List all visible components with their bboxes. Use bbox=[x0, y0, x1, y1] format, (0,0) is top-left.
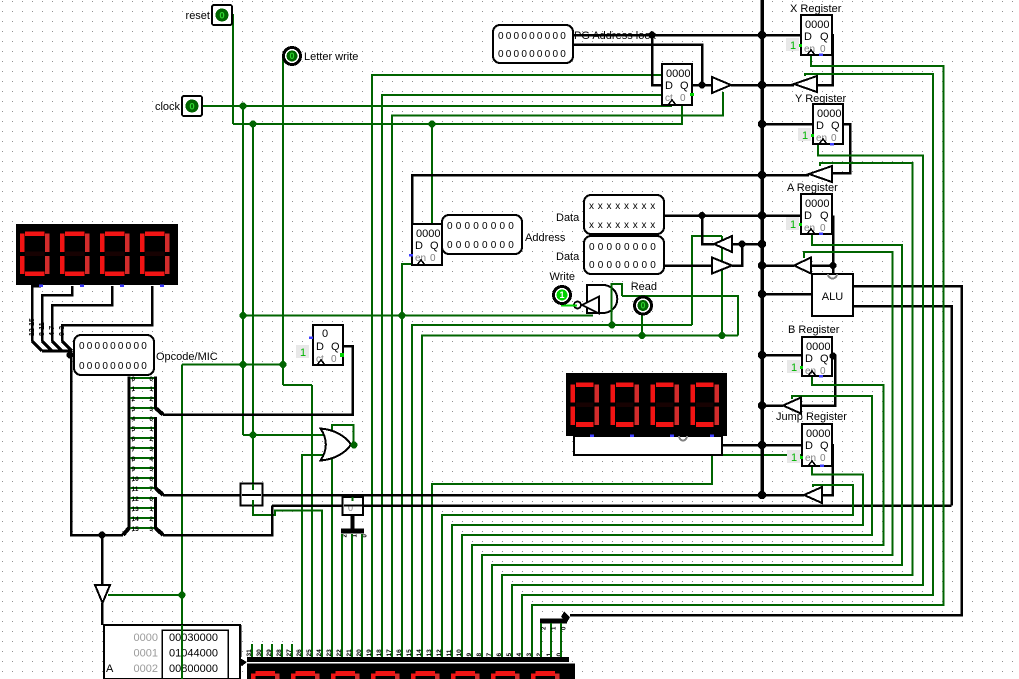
svg-text:0: 0 bbox=[537, 49, 543, 60]
svg-text:x: x bbox=[607, 220, 612, 231]
wire X clk bbox=[532, 54, 944, 658]
wire clock net y=106 bbox=[202, 105, 672, 107]
svg-text:0: 0 bbox=[430, 253, 436, 264]
wire Jump-out buffer ctl bbox=[442, 485, 853, 658]
wire A buffer in bbox=[811, 264, 833, 267]
svg-text:4: 4 bbox=[516, 653, 523, 657]
node bbox=[639, 332, 646, 339]
svg-text:0000: 0000 bbox=[806, 341, 830, 353]
svg-text:2: 2 bbox=[149, 436, 153, 443]
svg-text:0: 0 bbox=[500, 221, 506, 232]
gate box U1 on bus1 bbox=[241, 484, 263, 507]
svg-text:0: 0 bbox=[529, 49, 535, 60]
svg-text:0: 0 bbox=[650, 242, 656, 253]
wire Write stub (value 1) bbox=[562, 303, 577, 306]
svg-text:D: D bbox=[804, 31, 812, 43]
svg-text:0: 0 bbox=[615, 242, 621, 253]
wire bus to B-D bbox=[763, 354, 802, 357]
wire X Q elbow bbox=[817, 34, 833, 85]
wire display1 digit4 bbox=[62, 286, 152, 341]
svg-text:0: 0 bbox=[642, 260, 648, 271]
svg-text:0: 0 bbox=[110, 361, 116, 372]
node bbox=[67, 352, 74, 359]
wire PG Q to buffer bbox=[692, 84, 712, 87]
svg-text:7: 7 bbox=[132, 446, 136, 453]
svg-text:4: 4 bbox=[132, 416, 136, 423]
splitter 32-bit stub pins 31-27 bbox=[251, 644, 253, 657]
splitter opcode right groups bbox=[154, 377, 157, 410]
wire A Q down to ALU bbox=[832, 216, 835, 275]
svg-text:D: D bbox=[804, 210, 812, 222]
svg-text:21: 21 bbox=[346, 649, 353, 657]
svg-text:15: 15 bbox=[406, 649, 413, 657]
svg-text:Data: Data bbox=[556, 212, 580, 224]
svg-text:x: x bbox=[598, 220, 603, 231]
svg-text:17: 17 bbox=[386, 649, 393, 657]
svg-text:0: 0 bbox=[537, 31, 543, 42]
svg-text:28: 28 bbox=[276, 649, 283, 657]
svg-text:reset: reset bbox=[186, 10, 210, 22]
svg-text:0002: 0002 bbox=[134, 663, 158, 675]
svg-text:1: 1 bbox=[300, 347, 306, 359]
display hex 4-digit middle bbox=[566, 373, 727, 436]
svg-text:0: 0 bbox=[506, 49, 512, 60]
svg-text:0: 0 bbox=[219, 11, 224, 22]
svg-text:0: 0 bbox=[508, 221, 514, 232]
svg-text:0: 0 bbox=[831, 133, 837, 144]
wire bus to Y-D bbox=[762, 123, 813, 126]
node bbox=[240, 103, 247, 110]
wire ROM out right edge bbox=[239, 625, 242, 657]
enable 1 bbox=[786, 38, 799, 52]
register Address bbox=[412, 224, 442, 265]
svg-text:1: 1 bbox=[791, 362, 797, 374]
svg-text:ALU: ALU bbox=[822, 291, 843, 303]
svg-text:x: x bbox=[607, 201, 612, 212]
svg-text:0: 0 bbox=[102, 361, 108, 372]
svg-text:13: 13 bbox=[426, 649, 433, 657]
svg-text:0: 0 bbox=[521, 49, 527, 60]
svg-text:Data: Data bbox=[556, 251, 580, 263]
wire opcode probe bus left bbox=[70, 355, 123, 535]
svg-text:Letter write: Letter write bbox=[304, 51, 358, 63]
svg-text:1: 1 bbox=[149, 426, 153, 433]
register B bbox=[802, 337, 832, 377]
svg-text:10: 10 bbox=[456, 649, 463, 657]
node bus bbox=[758, 211, 766, 219]
register Jump bbox=[802, 424, 832, 466]
enable 1 bbox=[787, 450, 800, 464]
svg-text:A: A bbox=[106, 663, 114, 675]
wire A clk bbox=[492, 234, 902, 658]
svg-text:9: 9 bbox=[466, 653, 473, 657]
wire x=182 vertical bbox=[181, 365, 183, 679]
wire read buffer in to bus bbox=[732, 243, 763, 246]
svg-text:0: 0 bbox=[624, 242, 630, 253]
svg-text:0: 0 bbox=[102, 341, 108, 352]
wire pin19 net y=75 bbox=[372, 75, 662, 658]
node bus bbox=[758, 240, 766, 248]
wire x=182 through ROM bbox=[181, 625, 183, 679]
probe Data high bbox=[584, 195, 664, 234]
svg-text:0001: 0001 bbox=[134, 648, 158, 660]
svg-text:0: 0 bbox=[149, 376, 153, 383]
svg-text:x: x bbox=[642, 220, 647, 231]
wire buffer ctl x=722 bbox=[721, 236, 723, 336]
wire bus to A buffer bbox=[763, 264, 794, 267]
svg-text:6: 6 bbox=[149, 476, 153, 483]
wire x=102 to ROM buffer bbox=[101, 535, 104, 585]
svg-text:20: 20 bbox=[356, 649, 363, 657]
svg-text:0: 0 bbox=[820, 223, 826, 234]
splitter 3-bit mini at bus end bbox=[561, 612, 570, 623]
register PG bbox=[662, 64, 692, 105]
svg-text:0: 0 bbox=[447, 240, 453, 251]
svg-text:0: 0 bbox=[465, 240, 471, 251]
svg-text:x: x bbox=[598, 201, 603, 212]
svg-text:D: D bbox=[816, 120, 824, 132]
wire display1 digit2 bbox=[42, 286, 72, 341]
svg-text:ct: ct bbox=[665, 93, 673, 104]
svg-text:Jump Register: Jump Register bbox=[776, 411, 847, 423]
svg-text:0: 0 bbox=[126, 341, 132, 352]
wire y=325 net pin15 bbox=[412, 325, 692, 658]
node bbox=[399, 312, 406, 319]
svg-text:0: 0 bbox=[607, 260, 613, 271]
wire bus1 y=495 bbox=[163, 494, 804, 497]
svg-text:8: 8 bbox=[476, 653, 483, 657]
svg-text:00030000: 00030000 bbox=[169, 632, 218, 644]
wire y=315 net bbox=[243, 315, 593, 317]
svg-text:7: 7 bbox=[149, 486, 153, 493]
svg-text:26: 26 bbox=[296, 649, 303, 657]
svg-text:0: 0 bbox=[491, 240, 497, 251]
ROM contents box bbox=[104, 625, 240, 679]
svg-text:Write: Write bbox=[550, 271, 575, 283]
svg-text:B Register: B Register bbox=[788, 324, 840, 336]
node bus bbox=[758, 120, 766, 128]
svg-text:0: 0 bbox=[289, 51, 294, 61]
svg-text:15: 15 bbox=[132, 526, 140, 533]
svg-text:0: 0 bbox=[482, 221, 488, 232]
svg-text:1: 1 bbox=[790, 40, 796, 52]
splitter U2 3-bit bbox=[351, 515, 355, 529]
wire B-out buffer ctl bbox=[462, 396, 872, 658]
svg-text:x: x bbox=[633, 201, 638, 212]
wire PG Q feedback y=44 bbox=[572, 45, 702, 86]
svg-text:1: 1 bbox=[791, 452, 797, 464]
wire pin18 net y=95 bbox=[382, 95, 662, 658]
node bbox=[699, 82, 706, 89]
svg-text:01044000: 01044000 bbox=[169, 648, 218, 660]
svg-text:Q: Q bbox=[331, 341, 340, 353]
svg-text:0: 0 bbox=[598, 242, 604, 253]
node bus bbox=[758, 491, 766, 499]
svg-text:23: 23 bbox=[326, 649, 333, 657]
wire main bus vertical x=762 bbox=[760, 0, 764, 495]
node bbox=[609, 322, 616, 329]
svg-text:0: 0 bbox=[331, 354, 337, 365]
wire Jump Q elbow bbox=[822, 444, 833, 495]
svg-text:Q: Q bbox=[831, 120, 840, 132]
svg-text:10: 10 bbox=[132, 476, 140, 483]
node bbox=[280, 361, 287, 368]
display hex 4-digit top-left bbox=[16, 224, 178, 285]
svg-text:1: 1 bbox=[149, 386, 153, 393]
wire y=364 enable net bbox=[182, 364, 283, 366]
svg-text:0: 0 bbox=[465, 221, 471, 232]
svg-text:6: 6 bbox=[132, 436, 136, 443]
svg-text:12-15: 12-15 bbox=[29, 318, 36, 336]
wire B clk bbox=[472, 376, 884, 658]
svg-text:0: 0 bbox=[456, 240, 462, 251]
buffer bus-to-Y bbox=[809, 166, 832, 182]
svg-text:22: 22 bbox=[336, 649, 343, 657]
svg-text:x: x bbox=[650, 220, 655, 231]
wire AND out to read net bbox=[622, 296, 738, 336]
wire Read pin drop bbox=[641, 315, 643, 336]
svg-text:0: 0 bbox=[521, 31, 527, 42]
enable 1 bbox=[296, 345, 309, 359]
svg-text:x: x bbox=[615, 220, 620, 231]
splitter opcode 16-bit left bbox=[123, 528, 129, 535]
wire opcode low bus y=414 bbox=[163, 346, 353, 415]
svg-text:Q: Q bbox=[430, 240, 439, 252]
wire address net y=175 bbox=[412, 175, 809, 224]
wire Jump clk bbox=[452, 466, 863, 658]
svg-text:3: 3 bbox=[132, 406, 136, 413]
wire Y clk bbox=[512, 144, 923, 658]
wire bus to jump-D buffer bbox=[763, 404, 783, 407]
svg-text:5: 5 bbox=[149, 466, 153, 473]
svg-text:0000: 0000 bbox=[805, 19, 829, 31]
node bbox=[830, 262, 837, 269]
svg-text:0: 0 bbox=[552, 31, 558, 42]
svg-text:0: 0 bbox=[589, 242, 595, 253]
svg-text:12: 12 bbox=[132, 496, 140, 503]
svg-text:0: 0 bbox=[820, 453, 826, 464]
svg-text:X Register: X Register bbox=[790, 3, 842, 15]
wire read buffer out bbox=[702, 216, 714, 245]
svg-text:19: 19 bbox=[366, 649, 373, 657]
wire reset net vertical bbox=[232, 15, 233, 124]
node bbox=[739, 241, 746, 248]
wire OR input y=435 bbox=[243, 434, 327, 436]
node bbox=[429, 121, 436, 128]
pin Read bbox=[635, 297, 652, 314]
svg-text:0: 0 bbox=[141, 341, 147, 352]
display driver box bbox=[574, 436, 722, 455]
svg-text:Q: Q bbox=[680, 80, 689, 92]
node bus bbox=[758, 261, 766, 269]
svg-text:8-11: 8-11 bbox=[39, 322, 46, 336]
svg-text:18: 18 bbox=[376, 649, 383, 657]
svg-text:4: 4 bbox=[149, 456, 153, 463]
svg-text:0: 0 bbox=[633, 242, 639, 253]
wire ROM buffer ctl y=595 bbox=[108, 594, 182, 596]
register Y bbox=[813, 104, 843, 144]
svg-text:en: en bbox=[805, 366, 816, 377]
svg-text:0: 0 bbox=[545, 49, 551, 60]
register small 1-bit bbox=[313, 325, 343, 365]
node bbox=[699, 212, 706, 219]
buffer Jump-to-bus bbox=[804, 487, 822, 503]
svg-text:Address: Address bbox=[525, 232, 566, 244]
svg-text:0: 0 bbox=[189, 102, 194, 113]
svg-text:0: 0 bbox=[482, 240, 488, 251]
svg-text:x: x bbox=[642, 201, 647, 212]
wire ALU out1 to bottom bus bbox=[570, 286, 962, 615]
register A bbox=[801, 194, 832, 234]
ALU U3 bbox=[812, 274, 853, 316]
svg-text:00800000: 00800000 bbox=[169, 663, 218, 675]
wire PG D riser x=652 bbox=[652, 35, 662, 85]
buffer bus-to-JumpD bbox=[783, 398, 801, 414]
register X bbox=[801, 15, 832, 55]
svg-text:D: D bbox=[805, 353, 813, 365]
node bus bbox=[758, 171, 766, 179]
pin Letter write bbox=[284, 48, 301, 65]
svg-text:0: 0 bbox=[529, 31, 535, 42]
svg-text:x: x bbox=[624, 201, 629, 212]
svg-text:A Register: A Register bbox=[787, 182, 838, 194]
node bus bbox=[758, 31, 766, 39]
svg-text:0: 0 bbox=[820, 44, 826, 55]
svg-text:0: 0 bbox=[500, 240, 506, 251]
pin Write bbox=[554, 287, 571, 304]
svg-text:25: 25 bbox=[306, 649, 313, 657]
svg-text:0: 0 bbox=[149, 496, 153, 503]
svg-text:11: 11 bbox=[446, 649, 453, 656]
probe Opcode/MIC bbox=[74, 335, 154, 375]
svg-text:8: 8 bbox=[132, 456, 136, 463]
svg-text:0: 0 bbox=[95, 361, 101, 372]
svg-text:0: 0 bbox=[126, 361, 132, 372]
wire A-out buffer ctl bbox=[482, 252, 893, 658]
wire data net y=215 bbox=[663, 214, 801, 217]
node bbox=[240, 361, 247, 368]
wire display1 digit3 bbox=[52, 286, 112, 341]
svg-text:PG Address look: PG Address look bbox=[574, 30, 656, 42]
node bbox=[240, 312, 247, 319]
svg-text:0000: 0000 bbox=[416, 228, 440, 240]
wire display box to Jump-D y=445 bbox=[722, 444, 802, 447]
svg-text:1: 1 bbox=[802, 130, 808, 142]
svg-text:x: x bbox=[624, 220, 629, 231]
svg-text:0: 0 bbox=[149, 416, 153, 423]
AND gate G2 with inverted input bbox=[574, 285, 617, 314]
wire data write y=265 bbox=[663, 264, 712, 267]
probe PG Address bbox=[493, 25, 573, 63]
svg-text:1: 1 bbox=[149, 506, 153, 513]
buffer bus-to-X bbox=[794, 76, 817, 92]
svg-text:1: 1 bbox=[132, 386, 136, 393]
svg-text:0: 0 bbox=[141, 361, 147, 372]
wire OR input y=455 pin26 bbox=[302, 455, 334, 658]
svg-text:29: 29 bbox=[266, 649, 273, 657]
wire write buffer out riser bbox=[732, 244, 742, 266]
svg-text:0: 0 bbox=[87, 361, 93, 372]
node bus bbox=[758, 441, 766, 449]
svg-text:0000: 0000 bbox=[806, 428, 830, 440]
svg-text:0000: 0000 bbox=[805, 198, 829, 210]
svg-text:x: x bbox=[589, 220, 594, 231]
svg-text:x: x bbox=[633, 220, 638, 231]
svg-text:D: D bbox=[415, 240, 423, 252]
svg-text:0: 0 bbox=[133, 341, 139, 352]
svg-text:0: 0 bbox=[680, 93, 686, 104]
svg-text:9: 9 bbox=[132, 466, 136, 473]
svg-text:1: 1 bbox=[790, 219, 796, 231]
svg-text:3: 3 bbox=[149, 406, 153, 413]
svg-text:0: 0 bbox=[132, 376, 136, 383]
wire ALU out2 riser bbox=[853, 306, 952, 506]
svg-text:0: 0 bbox=[650, 260, 656, 271]
svg-text:31: 31 bbox=[246, 649, 253, 657]
svg-text:Opcode/MIC: Opcode/MIC bbox=[156, 351, 218, 363]
wire Y-out buffer ctl bbox=[502, 163, 913, 658]
svg-text:0: 0 bbox=[95, 341, 101, 352]
node bbox=[649, 32, 656, 39]
svg-text:12: 12 bbox=[436, 649, 443, 657]
svg-text:1: 1 bbox=[559, 290, 564, 300]
pin clock bbox=[182, 96, 202, 116]
wire x=432 to register clk / pin16 bbox=[402, 124, 432, 658]
svg-text:0: 0 bbox=[508, 240, 514, 251]
svg-text:2: 2 bbox=[149, 396, 153, 403]
buffer RAM-read bbox=[714, 236, 732, 252]
svg-text:0: 0 bbox=[447, 221, 453, 232]
node bbox=[250, 432, 257, 439]
svg-text:5: 5 bbox=[506, 653, 513, 657]
svg-text:0: 0 bbox=[118, 341, 124, 352]
svg-text:0: 0 bbox=[110, 341, 116, 352]
svg-text:0: 0 bbox=[506, 31, 512, 42]
svg-text:0: 0 bbox=[589, 260, 595, 271]
svg-text:0000: 0000 bbox=[666, 68, 690, 80]
svg-text:2: 2 bbox=[149, 516, 153, 523]
wire X-out buffer ctl bbox=[522, 74, 933, 658]
svg-text:0: 0 bbox=[640, 301, 645, 311]
wire Jump enable y=455 bbox=[712, 454, 802, 456]
svg-text:0: 0 bbox=[133, 361, 139, 372]
svg-text:0: 0 bbox=[118, 361, 124, 372]
svg-text:0: 0 bbox=[624, 260, 630, 271]
svg-text:3: 3 bbox=[526, 653, 533, 657]
node bus bbox=[758, 81, 766, 89]
OR gate G1 bbox=[321, 429, 352, 461]
svg-text:Q: Q bbox=[820, 440, 829, 452]
node bbox=[179, 592, 186, 599]
wire B Q elbow to buffer bbox=[801, 356, 835, 406]
svg-text:0: 0 bbox=[322, 328, 328, 340]
svg-text:D: D bbox=[316, 341, 324, 353]
svg-text:Q: Q bbox=[820, 353, 829, 365]
enable 1 bbox=[787, 360, 800, 374]
node bus bbox=[758, 401, 766, 409]
splitter display1 fan bbox=[32, 341, 42, 351]
wire pin17 net y=115 buffer ctl bbox=[392, 92, 723, 658]
pin reset bbox=[212, 5, 232, 25]
svg-text:Read: Read bbox=[631, 281, 657, 293]
svg-text:0: 0 bbox=[633, 260, 639, 271]
svg-text:0000: 0000 bbox=[134, 632, 158, 644]
wire bus to ALU B-in bbox=[763, 293, 812, 296]
svg-text:0: 0 bbox=[79, 361, 85, 372]
node bus bbox=[758, 290, 766, 298]
svg-text:14: 14 bbox=[416, 649, 423, 657]
svg-text:D: D bbox=[665, 80, 673, 92]
